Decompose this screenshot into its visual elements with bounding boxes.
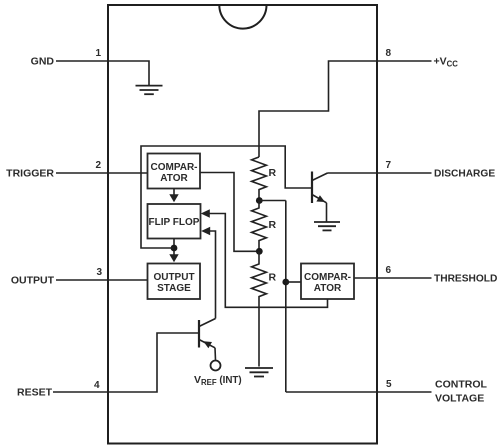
svg-text:5: 5	[386, 379, 392, 390]
wire tap to comparator U3 left input	[286, 281, 301, 283]
wire pin3 OUTPUT to output stage	[56, 279, 148, 281]
transistor Q2 (reset, PNP)	[199, 319, 216, 348]
svg-text:COMPAR-: COMPAR-	[150, 162, 197, 173]
svg-text:CONTROL: CONTROL	[435, 379, 487, 391]
wire flip flop output to discharge transistor Q1 base	[141, 146, 311, 248]
svg-text:R: R	[269, 219, 277, 231]
svg-text:+VCC: +VCC	[434, 56, 459, 69]
wire R1/R2 node to 2/3Vcc line	[259, 200, 286, 202]
Q2 emitter arrow (PNP, points toward base bar)	[203, 341, 212, 348]
wire pin2 TRIGGER to comparator U2	[56, 172, 148, 174]
node: flip flop output junction	[171, 245, 178, 252]
arrow into flip flop right (upper)	[201, 209, 210, 218]
Q1 emitter arrow	[316, 195, 325, 202]
wire Q1 emitter to ground	[326, 203, 328, 222]
svg-text:THRESHOLD: THRESHOLD	[434, 274, 497, 285]
svg-text:VOLTAGE: VOLTAGE	[435, 393, 484, 405]
svg-text:OUTPUT: OUTPUT	[153, 272, 194, 283]
ground symbol (pin 1)	[136, 86, 163, 95]
IC body U1 (555 timer outline)	[108, 5, 377, 444]
node: comparator U3 input tap	[282, 279, 289, 286]
wire pin4 RESET to transistor Q2 base	[53, 333, 198, 392]
wire Q2 emitter to Vref terminal	[214, 348, 217, 360]
wire Q2 collector to flip flop lower-right input	[210, 231, 216, 319]
svg-text:4: 4	[94, 380, 100, 391]
wire comparator U3 output to flip flop upper-right input	[209, 214, 327, 308]
node: R1/R2 junction (2/3 Vcc)	[256, 197, 263, 204]
Vref terminal circle	[211, 361, 221, 371]
wire pin1 GND	[56, 61, 149, 85]
wire 2/3 Vcc node down to control voltage pin	[285, 201, 287, 393]
output stage box	[148, 264, 201, 300]
comparator U3 box (threshold comparator)	[301, 264, 354, 300]
svg-text:DISCHARGE: DISCHARGE	[434, 169, 495, 180]
resistor R2	[252, 201, 267, 252]
comparator U2 box (trigger comparator)	[148, 154, 201, 189]
wire comparator U2 reference input to R2/R3 node	[201, 173, 260, 252]
svg-text:3: 3	[96, 267, 102, 278]
svg-text:R: R	[269, 167, 277, 179]
svg-text:FLIP FLOP: FLIP FLOP	[149, 217, 200, 228]
transistor Q1 (discharge, NPN)	[312, 172, 328, 204]
ground symbol (resistor chain)	[245, 368, 273, 377]
svg-text:STAGE: STAGE	[157, 283, 191, 294]
svg-text:VREF (INT): VREF (INT)	[194, 374, 242, 387]
svg-text:2: 2	[95, 160, 101, 171]
wire pin6 THRESHOLD to comparator U3	[354, 277, 432, 279]
wire flip flop to output stage	[173, 239, 175, 257]
svg-text:ATOR: ATOR	[160, 173, 188, 184]
wire pin5 CONTROL VOLTAGE to 2/3 Vcc node	[286, 391, 432, 393]
resistor R1	[252, 157, 267, 201]
wire pin7 DISCHARGE to Q1 collector	[328, 172, 432, 174]
arrow into output stage top	[169, 254, 178, 262]
svg-text:R: R	[269, 272, 277, 284]
notch (pin-1 index semicircle)	[219, 5, 266, 29]
svg-text:6: 6	[386, 265, 392, 276]
svg-text:RESET: RESET	[17, 387, 53, 399]
svg-text:COMPAR-: COMPAR-	[304, 272, 351, 283]
arrow into flip flop top	[169, 194, 178, 202]
svg-text:TRIGGER: TRIGGER	[6, 168, 54, 180]
ground symbol (Q1 emitter)	[314, 222, 340, 230]
resistor R3	[252, 251, 267, 366]
wire comparator U2 output to flip flop	[173, 189, 175, 197]
node: R2/R3 junction (1/3 Vcc)	[256, 248, 263, 255]
svg-text:OUTPUT: OUTPUT	[11, 275, 55, 287]
wire pin8 +Vcc to resistor chain	[259, 61, 432, 157]
svg-text:1: 1	[95, 48, 101, 59]
svg-text:GND: GND	[31, 56, 55, 68]
arrow into flip flop right (lower)	[201, 227, 210, 236]
svg-text:8: 8	[386, 48, 392, 59]
flip flop box	[148, 204, 201, 239]
svg-text:7: 7	[386, 160, 392, 171]
svg-text:ATOR: ATOR	[314, 283, 342, 294]
